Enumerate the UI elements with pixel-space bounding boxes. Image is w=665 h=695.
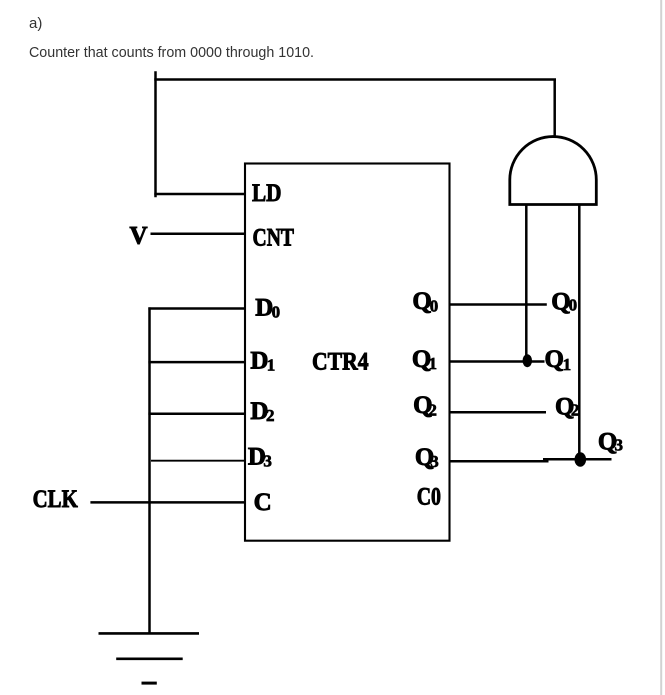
svg-text:1: 1 [429, 354, 438, 373]
wire D3 [151, 460, 246, 462]
pin label Q2 internal [413, 392, 437, 420]
pin label Q3 internal [415, 444, 439, 471]
wire AND input A vertical to Q1 [525, 205, 528, 361]
wire LD input stub [154, 193, 246, 196]
ground [99, 633, 200, 683]
wire D2 [148, 412, 246, 415]
wire D1 [148, 361, 246, 364]
pin label Q1 internal [412, 346, 437, 373]
junction dot on Q1 [523, 354, 533, 367]
svg-text:Q: Q [545, 346, 564, 373]
svg-text:CNT: CNT [253, 224, 295, 251]
wire D0 [148, 307, 246, 310]
wire Q1 output [450, 360, 545, 363]
svg-text:a): a) [29, 15, 42, 32]
label Q3 external [598, 429, 623, 456]
counter U2 CTR4 box [245, 164, 450, 541]
label Q2 external [555, 394, 579, 421]
junction dot on Q3 [575, 452, 587, 466]
wire Q0 output [450, 303, 547, 306]
wire D bus vertical [148, 307, 151, 633]
svg-text:0: 0 [430, 297, 439, 316]
pin label D0 [255, 294, 280, 321]
svg-text:3: 3 [430, 452, 439, 471]
pin label Q0 internal [412, 288, 438, 316]
svg-text:0: 0 [272, 303, 281, 322]
wire feedback top horizontal [154, 78, 556, 81]
label Q1 external [545, 346, 572, 374]
page right edge line [660, 0, 662, 695]
and-gate U1 [510, 137, 597, 205]
wire AND gate output vertical [553, 80, 556, 138]
svg-text:CTR4: CTR4 [312, 349, 369, 376]
wire AND input B vertical to Q3 [578, 205, 581, 461]
wire Q3 output segment B [543, 458, 612, 461]
svg-text:V: V [130, 222, 148, 249]
wire CLK [90, 501, 246, 504]
wire feedback vertical (LD branch) [154, 71, 157, 197]
pin label D2 [250, 398, 274, 425]
svg-text:1: 1 [267, 356, 276, 375]
wire Q3 output segment A [450, 460, 549, 463]
svg-text:Counter that counts from 0000: Counter that counts from 0000 through 10… [29, 44, 314, 61]
svg-text:3: 3 [263, 452, 272, 471]
svg-text:1: 1 [563, 355, 572, 374]
svg-text:D: D [250, 347, 268, 374]
svg-text:C0: C0 [417, 484, 441, 511]
svg-text:C: C [254, 489, 272, 516]
pin label D1 [250, 347, 275, 374]
svg-text:2: 2 [266, 406, 275, 425]
svg-text:0: 0 [569, 296, 578, 315]
pin label D3 [248, 444, 272, 471]
label Q0 external [551, 289, 577, 316]
wire Q2 output [450, 411, 547, 414]
svg-text:3: 3 [615, 436, 624, 455]
svg-text:2: 2 [428, 401, 437, 420]
svg-text:LD: LD [252, 180, 282, 207]
svg-text:CLK: CLK [33, 486, 79, 513]
wire V to CNT [151, 232, 247, 235]
